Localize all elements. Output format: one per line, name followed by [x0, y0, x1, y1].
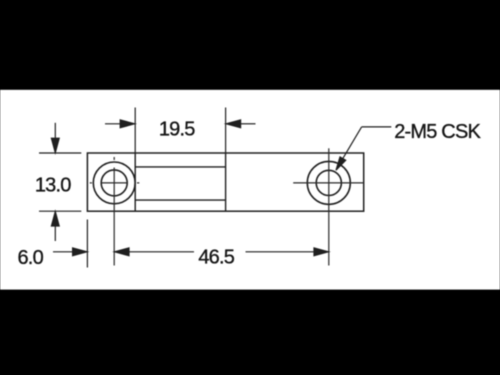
- left hole vertical centerline / 46.5 extension: [113, 168, 115, 266]
- white drawing band: [0, 90, 500, 290]
- 13.0 top arrow tail: [54, 123, 56, 139]
- left hole vertical centerline top dot: [113, 157, 115, 160]
- right hole vertical centerline / 46.5 extension: [328, 148, 330, 265]
- 13.0 bottom arrow tail: [54, 226, 56, 241]
- 19.5 left arrowhead: [120, 120, 135, 128]
- 6.0 arrow tail: [53, 251, 73, 253]
- right hole bore circle: [316, 170, 341, 195]
- 46.5 dimension line right segment: [246, 251, 315, 253]
- left hole horizontal centerline left dot: [90, 182, 92, 184]
- slot bottom line: [135, 199, 225, 201]
- slot right edge line: [225, 153, 227, 211]
- 46.5 right arrowhead: [314, 248, 329, 256]
- 19.5 right extension line: [225, 108, 227, 154]
- 13.0 top arrowhead: [51, 138, 59, 153]
- slot left edge line: [134, 153, 136, 211]
- 6.0 arrowhead: [73, 248, 88, 256]
- leader line diagonal (2-M5 CSK): [339, 127, 362, 166]
- 19.5 left extension line: [134, 108, 136, 154]
- svg-text:19.5: 19.5: [159, 118, 195, 140]
- 46.5 dimension line left segment: [129, 251, 195, 253]
- svg-text:46.5: 46.5: [198, 247, 234, 269]
- left hole countersink circle: [93, 162, 135, 204]
- 19.5 left arrow tail: [105, 123, 122, 125]
- svg-text:13.0: 13.0: [35, 175, 71, 197]
- 13.0 top extension line: [39, 152, 81, 154]
- 13.0 bottom arrowhead: [51, 212, 59, 227]
- left hole horizontal centerline dash: [101, 182, 127, 184]
- right hole horizontal centerline: [293, 182, 364, 184]
- left hole horizontal centerline right dot: [137, 182, 139, 184]
- 13.0 bottom extension line: [39, 210, 81, 212]
- 6.0 / body left edge extension line: [86, 220, 88, 268]
- 19.5 right arrowhead: [226, 120, 241, 128]
- svg-text:2-M5 CSK: 2-M5 CSK: [394, 121, 481, 143]
- leader arrowhead (2-M5 CSK): [336, 157, 346, 170]
- slot top line: [135, 166, 225, 168]
- part body outline: [87, 153, 363, 211]
- left hole bore circle: [101, 170, 127, 196]
- right hole countersink circle: [307, 161, 350, 204]
- svg-text:6.0: 6.0: [17, 247, 43, 269]
- leader line horizontal (2-M5 CSK): [362, 126, 392, 128]
- 46.5 left arrowhead: [115, 248, 130, 256]
- 19.5 right arrow tail: [240, 123, 256, 125]
